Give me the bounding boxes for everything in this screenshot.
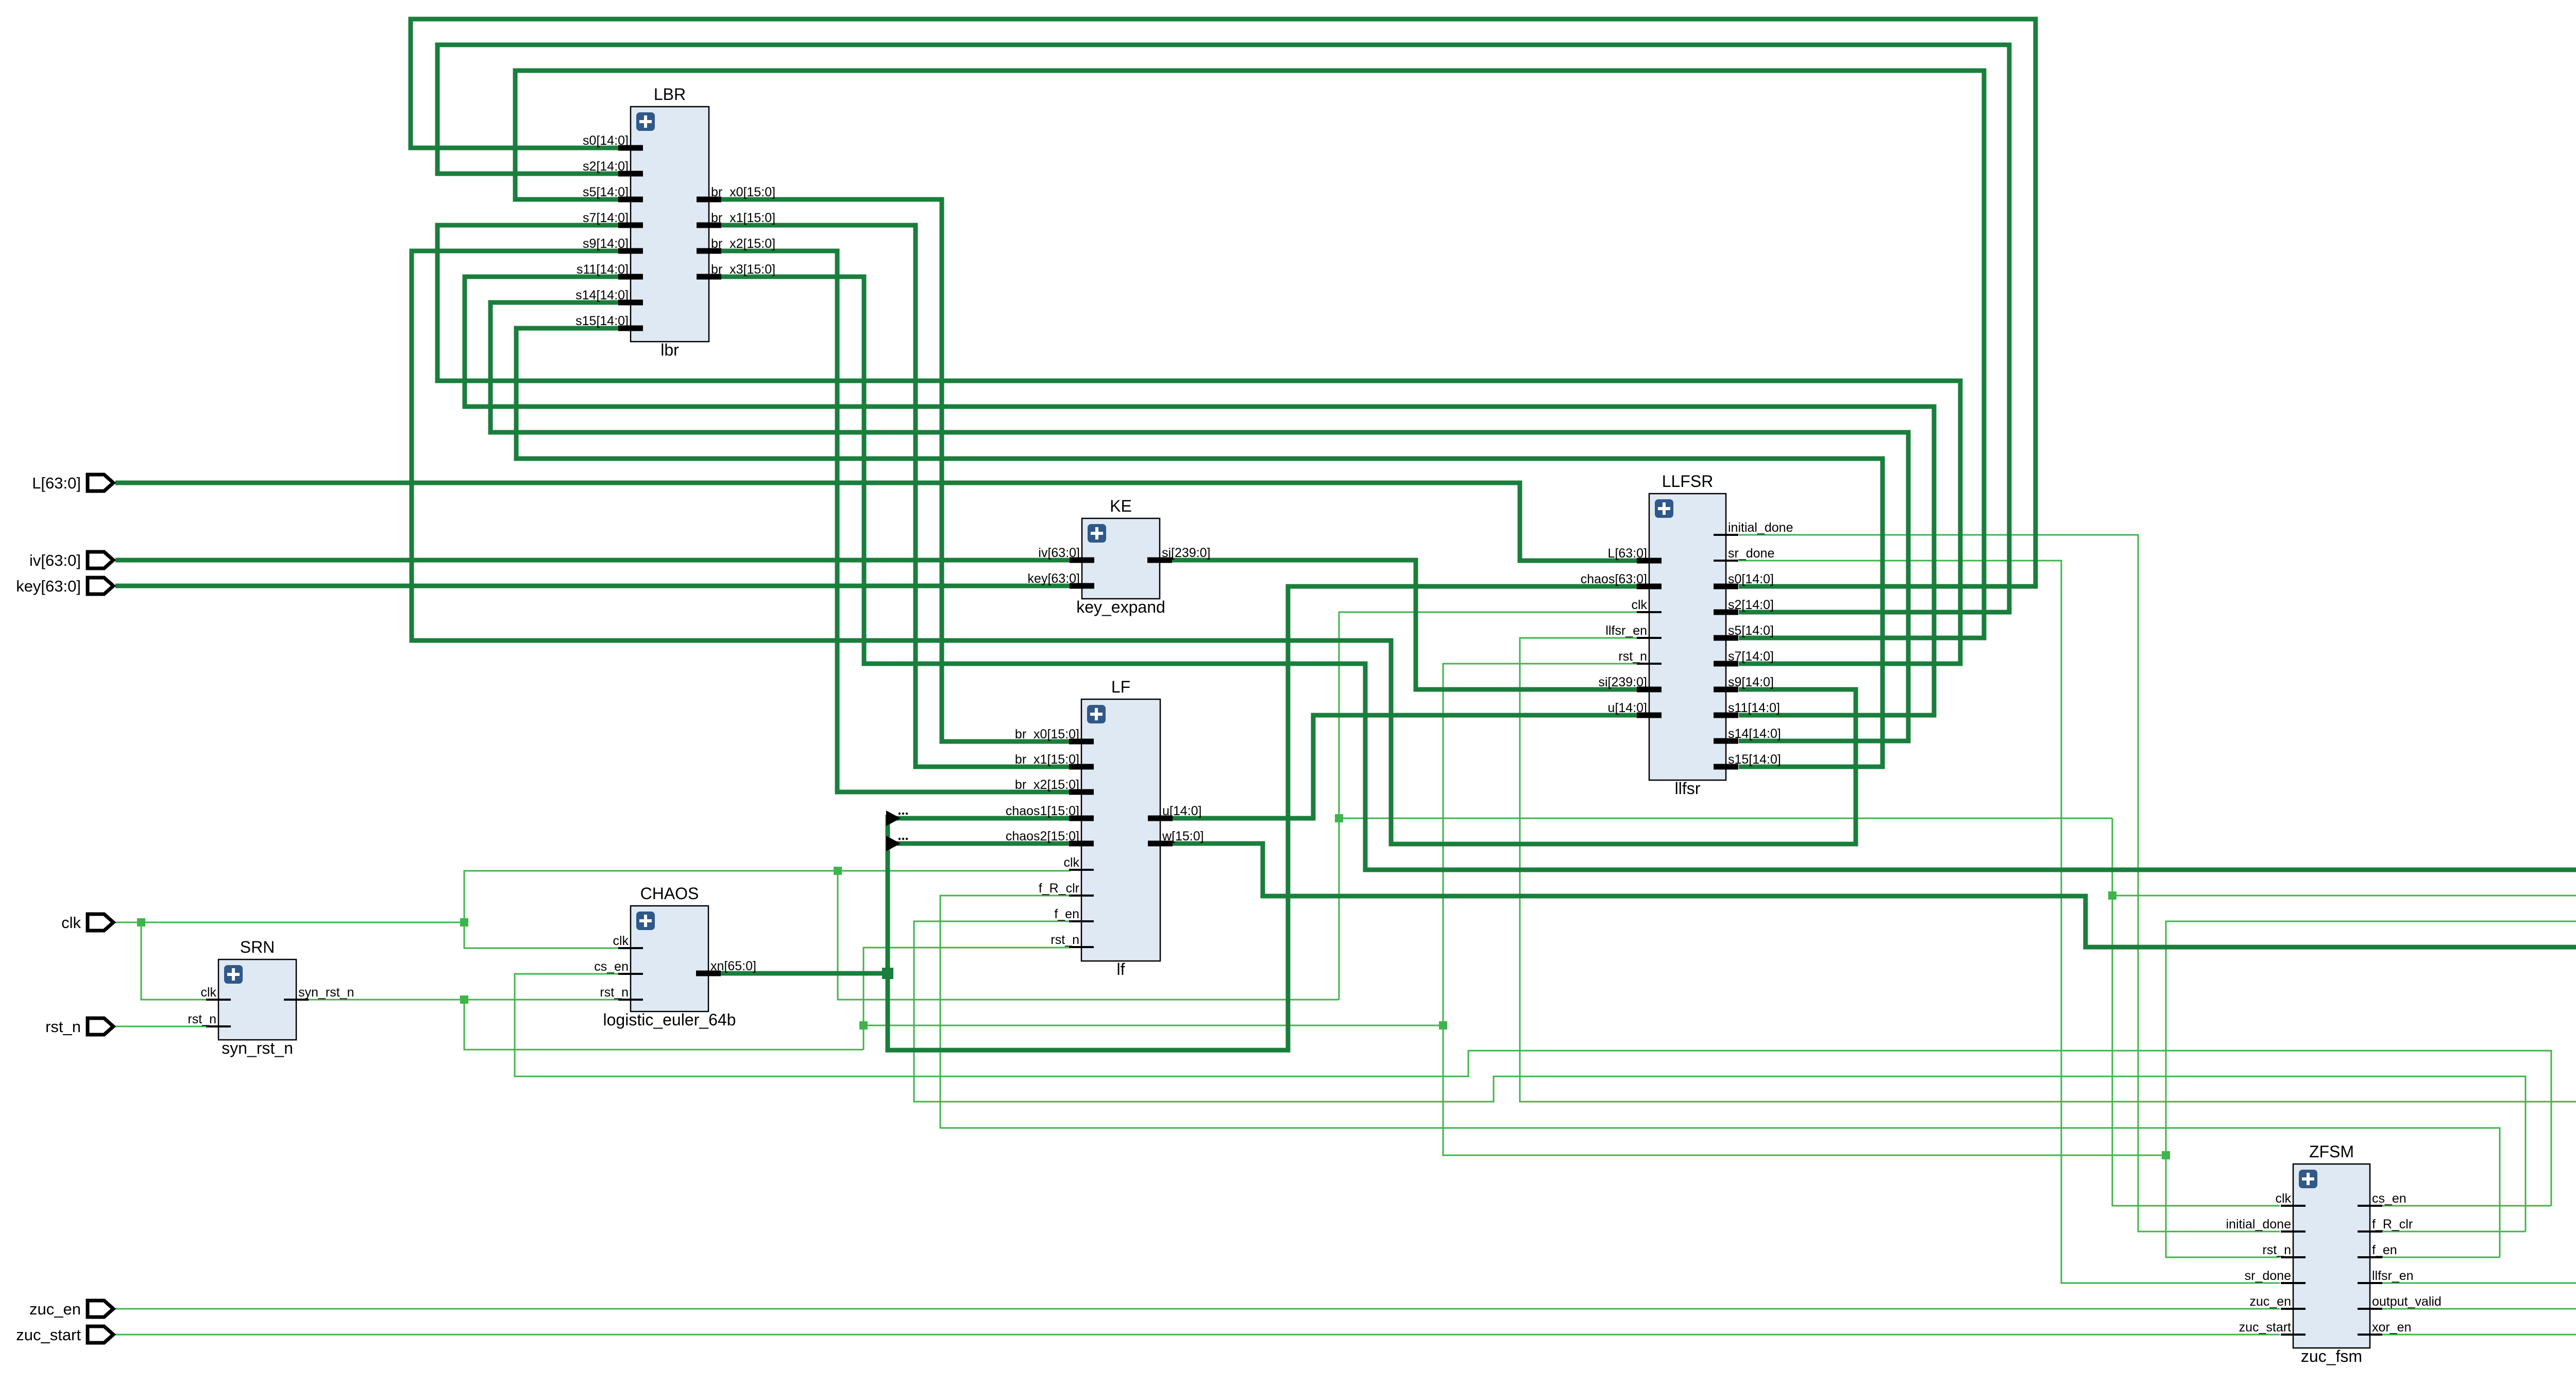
svg-text:clk: clk <box>200 985 216 1000</box>
svg-text:xn[65:0]: xn[65:0] <box>710 959 756 973</box>
svg-text:rst_n: rst_n <box>2262 1243 2291 1257</box>
svg-text:s7[14:0]: s7[14:0] <box>1728 649 1774 664</box>
svg-text:s2[14:0]: s2[14:0] <box>1728 598 1774 612</box>
svg-text:zuc_en: zuc_en <box>29 1300 81 1318</box>
svg-text:rst_n: rst_n <box>45 1018 81 1036</box>
svg-text:output_valid: output_valid <box>2372 1294 2442 1309</box>
svg-text:key[63:0]: key[63:0] <box>16 577 81 595</box>
svg-text:lf: lf <box>1117 960 1125 979</box>
svg-text:s2[14:0]: s2[14:0] <box>583 159 629 174</box>
svg-text:s9[14:0]: s9[14:0] <box>583 237 629 251</box>
svg-text:rst_n: rst_n <box>1050 933 1079 947</box>
svg-text:lbr: lbr <box>660 341 679 359</box>
svg-text:syn_rst_n: syn_rst_n <box>222 1039 293 1057</box>
svg-text:initial_done: initial_done <box>2226 1217 2292 1232</box>
svg-text:s5[14:0]: s5[14:0] <box>1728 623 1774 638</box>
svg-text:br x2[15:0]: br x2[15:0] <box>1015 778 1079 792</box>
svg-text:LLFSR: LLFSR <box>1662 472 1714 491</box>
svg-text:f_R_clr: f_R_clr <box>2372 1217 2413 1232</box>
svg-text:L[63:0]: L[63:0] <box>32 474 81 492</box>
svg-text:u[14:0]: u[14:0] <box>1162 804 1201 818</box>
svg-text:iv[63:0]: iv[63:0] <box>29 551 81 569</box>
svg-text:s15[14:0]: s15[14:0] <box>1728 752 1781 767</box>
svg-text:zuc_fsm: zuc_fsm <box>2301 1347 2362 1365</box>
svg-text:rst_n: rst_n <box>1618 649 1647 664</box>
svg-text:rst_n: rst_n <box>600 985 629 1000</box>
svg-text:s0[14:0]: s0[14:0] <box>1728 572 1774 586</box>
svg-text:br x1[15:0]: br x1[15:0] <box>711 211 775 225</box>
svg-text:cs_en: cs_en <box>594 959 629 974</box>
svg-text:zuc_en: zuc_en <box>2249 1294 2291 1309</box>
svg-text:logistic_euler_64b: logistic_euler_64b <box>603 1010 736 1029</box>
svg-text:s14[14:0]: s14[14:0] <box>575 288 629 302</box>
svg-text:iv[63:0]: iv[63:0] <box>1038 546 1080 560</box>
svg-text:s11[14:0]: s11[14:0] <box>1728 701 1780 715</box>
svg-text:s7[14:0]: s7[14:0] <box>583 211 629 225</box>
svg-text:clk: clk <box>1063 855 1079 870</box>
svg-text:clk: clk <box>61 914 81 932</box>
svg-text:sr_done: sr_done <box>1728 546 1774 561</box>
svg-text:s9[14:0]: s9[14:0] <box>1728 675 1774 689</box>
svg-text:cs_en: cs_en <box>2372 1191 2406 1206</box>
svg-text:f_R_clr: f_R_clr <box>1039 881 1079 896</box>
svg-text:L[63:0]: L[63:0] <box>1608 546 1647 561</box>
svg-text:s5[14:0]: s5[14:0] <box>583 185 629 199</box>
svg-text:clk: clk <box>1631 598 1647 612</box>
svg-text:f_en: f_en <box>1054 907 1079 921</box>
svg-text:chaos1[15:0]: chaos1[15:0] <box>1006 804 1079 818</box>
svg-text:u[14:0]: u[14:0] <box>1608 701 1647 715</box>
svg-text:key[63:0]: key[63:0] <box>1028 571 1080 586</box>
svg-text:CHAOS: CHAOS <box>640 884 699 903</box>
svg-text:clk: clk <box>613 934 629 948</box>
svg-text:zuc_start: zuc_start <box>2239 1320 2291 1335</box>
svg-text:s15[14:0]: s15[14:0] <box>575 314 629 328</box>
svg-text:llfsr_en: llfsr_en <box>2372 1269 2414 1283</box>
svg-text:w[15:0]: w[15:0] <box>1162 829 1204 844</box>
svg-text:ZFSM: ZFSM <box>2309 1142 2354 1161</box>
svg-text:br x2[15:0]: br x2[15:0] <box>711 237 775 251</box>
svg-text:f_en: f_en <box>2372 1243 2397 1257</box>
svg-text:llfsr: llfsr <box>1675 779 1701 798</box>
svg-text:KE: KE <box>1110 497 1132 515</box>
svg-text:xor_en: xor_en <box>2372 1320 2411 1335</box>
svg-text:initial_done: initial_done <box>1728 520 1793 535</box>
svg-text:br x0[15:0]: br x0[15:0] <box>711 185 775 199</box>
svg-text:chaos[63:0]: chaos[63:0] <box>1581 572 1647 586</box>
svg-text:chaos2[15:0]: chaos2[15:0] <box>1006 829 1079 844</box>
svg-text:llfsr_en: llfsr_en <box>1605 623 1647 638</box>
svg-text:LBR: LBR <box>654 85 686 104</box>
svg-text:SRN: SRN <box>240 938 275 956</box>
svg-text:s0[14:0]: s0[14:0] <box>583 133 629 148</box>
svg-text:br x3[15:0]: br x3[15:0] <box>711 262 775 277</box>
svg-text:sr_done: sr_done <box>2245 1269 2291 1283</box>
svg-text:key_expand: key_expand <box>1076 598 1165 616</box>
svg-text:LF: LF <box>1111 678 1130 696</box>
svg-text:si[239:0]: si[239:0] <box>1162 546 1211 560</box>
svg-text:br x0[15:0]: br x0[15:0] <box>1015 727 1079 741</box>
svg-text:syn_rst_n: syn_rst_n <box>298 985 354 1000</box>
svg-text:s14[14:0]: s14[14:0] <box>1728 727 1781 741</box>
svg-text:br x1[15:0]: br x1[15:0] <box>1015 752 1079 767</box>
svg-text:si[239:0]: si[239:0] <box>1598 675 1647 689</box>
svg-text:rst_n: rst_n <box>188 1012 216 1026</box>
svg-text:clk: clk <box>2275 1191 2291 1206</box>
svg-text:zuc_start: zuc_start <box>16 1326 81 1344</box>
svg-text:s11[14:0]: s11[14:0] <box>577 262 629 277</box>
